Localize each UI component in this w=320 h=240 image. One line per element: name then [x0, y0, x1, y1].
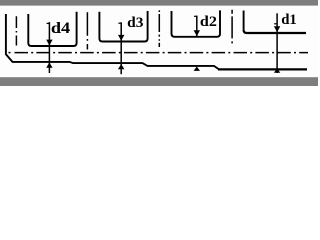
svg-text:d4: d4 [51, 20, 71, 37]
svg-text:d1: d1 [281, 12, 297, 28]
svg-text:d2: d2 [200, 14, 217, 30]
svg-text:d3: d3 [127, 15, 143, 31]
